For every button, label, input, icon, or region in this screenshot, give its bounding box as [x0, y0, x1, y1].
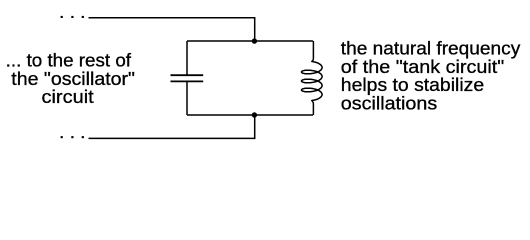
node B: bottom junction	[252, 112, 257, 117]
svg-text:of the "tank circuit": of the "tank circuit"	[341, 57, 505, 77]
capacitor C1 bottom plate	[171, 80, 204, 82]
wire: tank circuit top rail	[187, 40, 313, 42]
svg-text:the "oscillator": the "oscillator"	[11, 69, 135, 89]
capacitor C1 top lead	[186, 41, 188, 75]
svg-text:oscillations: oscillations	[341, 93, 437, 113]
svg-text:circuit: circuit	[42, 87, 94, 107]
wire: bottom lead to rest of oscillator circuit	[89, 115, 255, 138]
svg-text:helps to stabilize: helps to stabilize	[341, 75, 484, 95]
svg-text:... to the rest of: ... to the rest of	[6, 51, 132, 71]
wire: top lead to rest of oscillator circuit	[89, 18, 255, 41]
svg-text:the natural frequency: the natural frequency	[341, 39, 521, 59]
inductor L1 coil	[302, 41, 323, 115]
wire: tank circuit bottom rail	[187, 114, 313, 116]
capacitor C1 top plate	[171, 74, 204, 76]
node A: top junction	[252, 38, 257, 43]
node: top-left continuation dots	[61, 16, 84, 18]
node: bottom-left continuation dots	[61, 136, 84, 138]
capacitor C1 bottom lead	[186, 81, 188, 115]
